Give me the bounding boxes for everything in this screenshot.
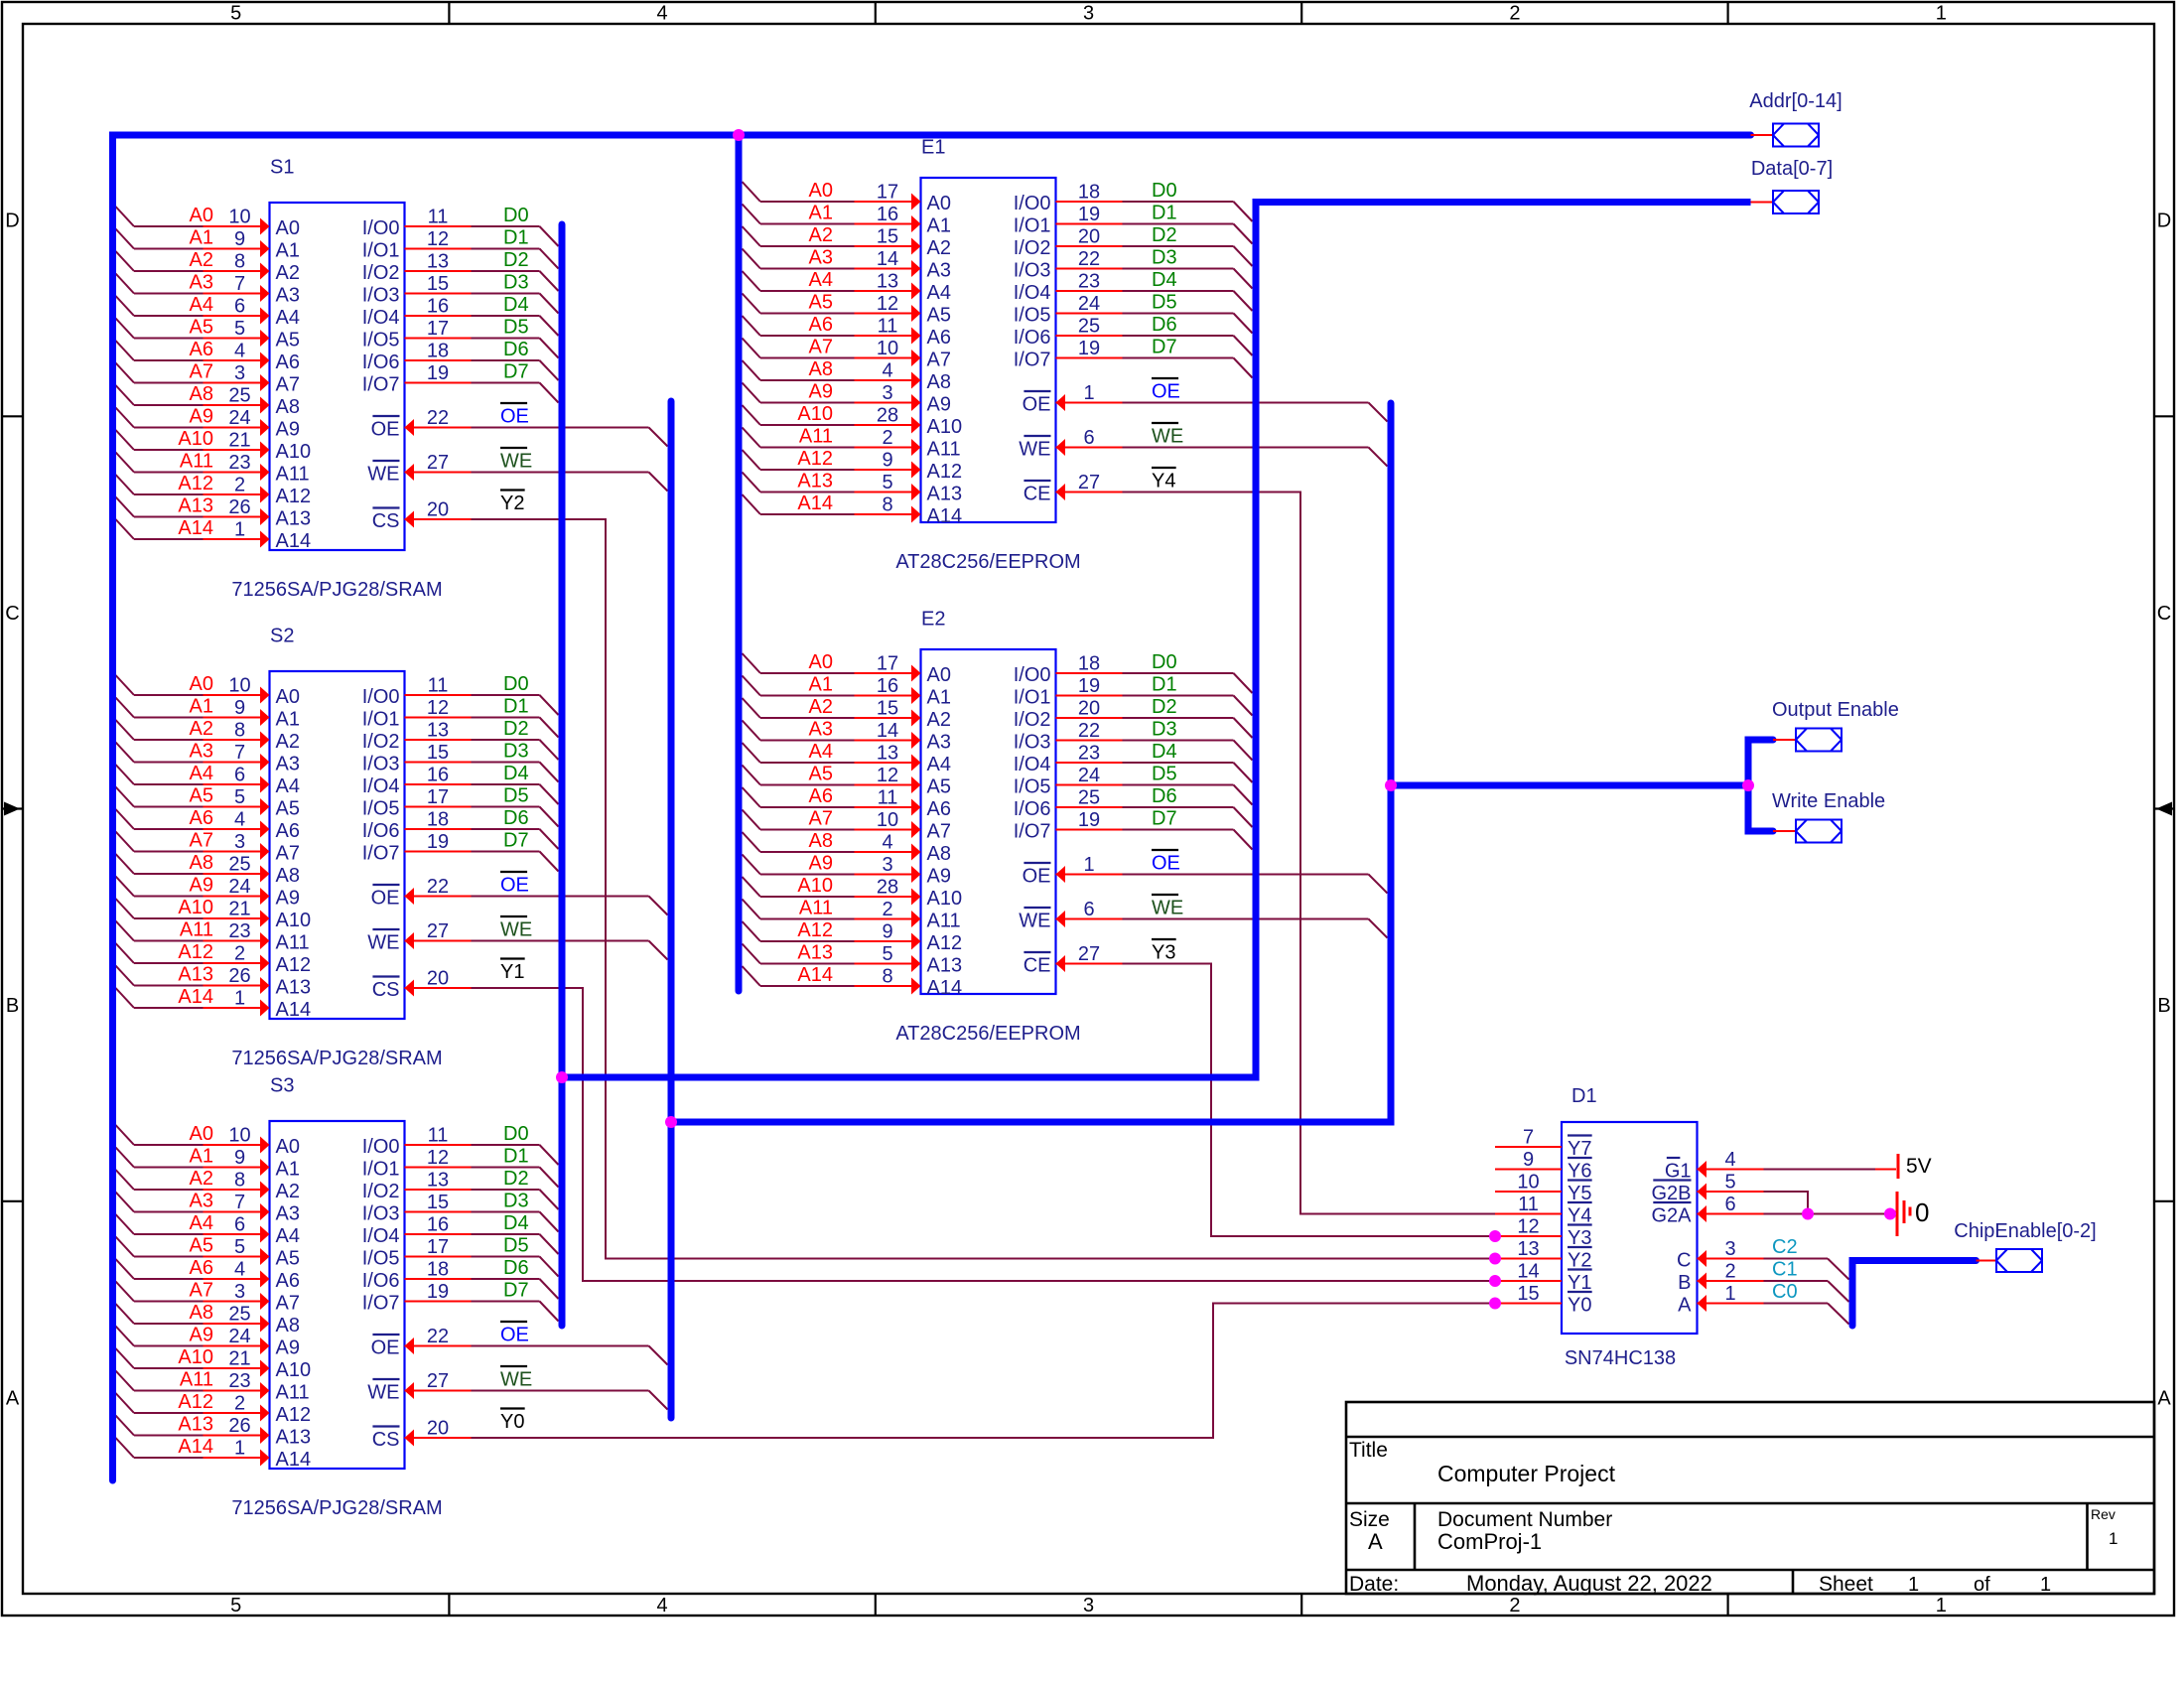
wire D4 from E1 I/O4 to data bus xyxy=(1056,291,1253,311)
svg-text:A1: A1 xyxy=(809,674,833,696)
wire D3 from E2 I/O3 to data bus xyxy=(1056,741,1253,761)
svg-text:24: 24 xyxy=(228,1326,250,1347)
svg-text:D2: D2 xyxy=(1152,224,1177,246)
svg-text:A3: A3 xyxy=(190,272,213,294)
E2 right pin numbers xyxy=(1078,653,1100,966)
svg-text:D6: D6 xyxy=(503,339,529,360)
svg-text:A10: A10 xyxy=(927,416,963,438)
svg-text:C0: C0 xyxy=(1772,1281,1798,1303)
svg-text:D7: D7 xyxy=(503,830,529,852)
svg-text:A14: A14 xyxy=(178,986,213,1008)
svg-text:A8: A8 xyxy=(927,843,951,865)
svg-text:2: 2 xyxy=(1724,1261,1735,1283)
wire A12 bus entry to S2 pin 2 xyxy=(116,943,270,972)
svg-text:2: 2 xyxy=(234,943,245,965)
svg-text:Y0: Y0 xyxy=(500,1411,524,1433)
wire A8 bus entry to S2 pin 25 xyxy=(116,854,270,883)
svg-text:19: 19 xyxy=(427,1281,449,1303)
svg-text:A12: A12 xyxy=(276,954,312,976)
wire A11 bus entry to S2 pin 23 xyxy=(116,921,270,950)
svg-text:5: 5 xyxy=(234,318,245,340)
IC S1 71256SA/PJG28 SRAM body xyxy=(231,157,442,602)
svg-text:16: 16 xyxy=(877,675,898,697)
svg-text:OE: OE xyxy=(1152,381,1180,403)
wire A13 bus entry to E1 pin 5 xyxy=(743,473,921,501)
svg-text:OE: OE xyxy=(500,1325,529,1346)
svg-text:Y5: Y5 xyxy=(1568,1183,1591,1204)
svg-text:A2: A2 xyxy=(190,249,213,271)
svg-text:26: 26 xyxy=(228,496,250,518)
svg-text:A1: A1 xyxy=(276,240,300,262)
svg-text:21: 21 xyxy=(228,1348,250,1370)
svg-text:WE: WE xyxy=(1152,426,1183,448)
svg-text:D0: D0 xyxy=(503,673,529,695)
svg-text:5: 5 xyxy=(230,3,241,25)
svg-text:A2: A2 xyxy=(276,1181,300,1202)
svg-text:Y1: Y1 xyxy=(500,961,524,983)
svg-text:20: 20 xyxy=(427,968,449,990)
svg-text:13: 13 xyxy=(427,720,449,742)
svg-text:28: 28 xyxy=(877,877,898,899)
svg-text:G2A: G2A xyxy=(1651,1205,1692,1227)
svg-text:22: 22 xyxy=(427,407,449,429)
svg-text:A7: A7 xyxy=(276,374,300,396)
ground symbol 0 xyxy=(1897,1192,1929,1236)
wire A12 bus entry to E1 pin 9 xyxy=(743,450,921,479)
svg-text:18: 18 xyxy=(427,809,449,831)
svg-text:16: 16 xyxy=(877,204,898,225)
svg-text:S2: S2 xyxy=(270,626,294,647)
svg-text:A14: A14 xyxy=(276,1449,312,1471)
svg-text:D3: D3 xyxy=(1152,247,1177,269)
svg-text:D7: D7 xyxy=(503,361,529,383)
wire D1 from E1 I/O1 to data bus xyxy=(1056,224,1253,244)
svg-text:A5: A5 xyxy=(927,776,951,798)
wire A9 bus entry to S3 pin 24 xyxy=(116,1327,270,1355)
svg-text:27: 27 xyxy=(427,920,449,942)
svg-text:9: 9 xyxy=(234,697,245,719)
IC E2 AT28C256 EEPROM body xyxy=(895,609,1080,1046)
svg-text:5V: 5V xyxy=(1906,1155,1932,1178)
wire WE from S2 to control bus xyxy=(405,932,668,960)
svg-text:I/O4: I/O4 xyxy=(362,775,400,797)
svg-text:15: 15 xyxy=(877,226,898,248)
svg-text:OE: OE xyxy=(500,406,529,428)
svg-text:A7: A7 xyxy=(927,350,951,371)
wire A5 bus entry to S3 pin 5 xyxy=(116,1237,270,1266)
svg-text:A13: A13 xyxy=(276,1427,312,1449)
svg-text:6: 6 xyxy=(234,296,245,318)
svg-text:WE: WE xyxy=(1152,898,1183,919)
svg-text:A0: A0 xyxy=(809,180,833,202)
svg-text:21: 21 xyxy=(228,430,250,452)
junction Y1 at D1 pin 14 xyxy=(1489,1275,1501,1287)
svg-text:Sheet: Sheet xyxy=(1819,1573,1873,1596)
wire A13 bus entry to S1 pin 26 xyxy=(116,497,270,526)
svg-text:A13: A13 xyxy=(797,471,833,492)
svg-text:OE: OE xyxy=(1023,866,1051,888)
junction control bus to ports xyxy=(1385,779,1397,791)
svg-text:A10: A10 xyxy=(178,897,213,918)
svg-text:25: 25 xyxy=(228,1304,250,1326)
svg-text:A8: A8 xyxy=(276,865,300,887)
bus run to Output/Write Enable ports xyxy=(1391,782,1748,789)
svg-text:23: 23 xyxy=(228,452,250,474)
wire D4 from S2 I/O4 to data bus xyxy=(405,784,559,804)
svg-text:I/O4: I/O4 xyxy=(1014,754,1051,775)
svg-text:1: 1 xyxy=(1083,854,1094,876)
wire D6 from E1 I/O6 to data bus xyxy=(1056,336,1253,355)
svg-text:E2: E2 xyxy=(921,609,945,631)
svg-text:2: 2 xyxy=(1509,3,1520,25)
svg-text:I/O2: I/O2 xyxy=(1014,237,1051,259)
svg-text:A12: A12 xyxy=(276,1404,312,1426)
wire A7 bus entry to S1 pin 3 xyxy=(116,363,270,392)
svg-text:I/O0: I/O0 xyxy=(362,1136,400,1158)
svg-text:A0: A0 xyxy=(276,1136,300,1158)
svg-text:I/O7: I/O7 xyxy=(1014,350,1051,371)
wire A12 bus entry to S3 pin 2 xyxy=(116,1393,270,1422)
E1 left pin numbers xyxy=(877,182,898,516)
svg-text:A9: A9 xyxy=(276,419,300,441)
svg-text:C1: C1 xyxy=(1772,1259,1798,1281)
svg-text:CS: CS xyxy=(372,1429,400,1451)
svg-text:17: 17 xyxy=(877,653,898,675)
svg-text:24: 24 xyxy=(1078,293,1100,315)
wire D4 from S1 I/O4 to data bus xyxy=(405,316,559,336)
wire A14 bus entry to E1 pin 8 xyxy=(743,494,921,523)
svg-text:13: 13 xyxy=(1517,1238,1539,1260)
svg-text:I/O7: I/O7 xyxy=(362,843,400,865)
svg-text:Y7: Y7 xyxy=(1568,1138,1591,1160)
svg-text:11: 11 xyxy=(878,316,898,338)
svg-text:A1: A1 xyxy=(809,203,833,224)
wire A3 bus entry to S2 pin 7 xyxy=(116,743,270,772)
svg-text:19: 19 xyxy=(427,362,449,384)
svg-text:D5: D5 xyxy=(503,317,529,339)
svg-text:6: 6 xyxy=(234,765,245,786)
svg-text:I/O5: I/O5 xyxy=(362,798,400,820)
wire D2 from S1 I/O2 to data bus xyxy=(405,271,559,291)
wire A14 bus entry to S3 pin 1 xyxy=(116,1438,270,1467)
wire A8 bus entry to S1 pin 25 xyxy=(116,385,270,414)
svg-text:5: 5 xyxy=(882,472,892,493)
svg-text:I/O4: I/O4 xyxy=(362,1225,400,1247)
svg-text:9: 9 xyxy=(234,1147,245,1169)
wire A9 bus entry to S2 pin 24 xyxy=(116,877,270,906)
wire D3 from S2 I/O3 to data bus xyxy=(405,763,559,782)
bus Data[0-7] horizontal + EEPROM vertical + top run to port xyxy=(562,203,1751,1078)
svg-text:A11: A11 xyxy=(276,932,310,954)
svg-text:A8: A8 xyxy=(927,371,951,393)
svg-text:WE: WE xyxy=(367,932,399,954)
svg-text:71256SA/PJG28/SRAM: 71256SA/PJG28/SRAM xyxy=(231,1497,442,1519)
svg-text:D2: D2 xyxy=(503,1168,529,1190)
svg-text:14: 14 xyxy=(1517,1261,1539,1283)
svg-text:19: 19 xyxy=(1078,338,1100,359)
svg-text:A9: A9 xyxy=(190,406,213,428)
wire Y3 from E2 CE pin 27 to decoder xyxy=(1056,955,1496,1236)
wire D4 from S3 I/O4 to data bus xyxy=(405,1234,559,1254)
svg-text:12: 12 xyxy=(427,228,449,250)
svg-text:14: 14 xyxy=(877,720,898,742)
svg-text:A10: A10 xyxy=(178,1346,213,1368)
svg-text:17: 17 xyxy=(427,1236,449,1258)
svg-text:I/O7: I/O7 xyxy=(362,1293,400,1315)
svg-text:A5: A5 xyxy=(190,317,213,339)
svg-text:A11: A11 xyxy=(927,911,961,932)
svg-text:A3: A3 xyxy=(809,719,833,741)
svg-text:A14: A14 xyxy=(276,530,312,552)
svg-text:A5: A5 xyxy=(190,1235,213,1257)
wire A7 bus entry to S2 pin 3 xyxy=(116,832,270,861)
svg-text:Y2: Y2 xyxy=(500,492,524,514)
svg-text:I/O1: I/O1 xyxy=(362,709,400,731)
svg-text:A2: A2 xyxy=(276,731,300,753)
wire C input from ChipEnable bus xyxy=(1698,1250,1849,1280)
svg-text:3: 3 xyxy=(1083,1595,1094,1617)
svg-text:19: 19 xyxy=(427,831,449,853)
svg-text:2: 2 xyxy=(234,1393,245,1415)
svg-text:14: 14 xyxy=(877,248,898,270)
svg-text:A0: A0 xyxy=(276,217,300,239)
svg-text:C2: C2 xyxy=(1772,1236,1798,1258)
svg-text:20: 20 xyxy=(1078,698,1100,720)
svg-text:7: 7 xyxy=(234,1192,245,1213)
svg-text:4: 4 xyxy=(234,1259,245,1281)
svg-text:Y6: Y6 xyxy=(1568,1161,1591,1183)
svg-text:A0: A0 xyxy=(190,1123,213,1145)
svg-text:WE: WE xyxy=(1019,439,1050,461)
wire A8 bus entry to E2 pin 4 xyxy=(743,832,921,861)
svg-text:4: 4 xyxy=(657,1595,668,1617)
wire A14 bus entry to E2 pin 8 xyxy=(743,966,921,995)
svg-text:16: 16 xyxy=(427,1214,449,1236)
bus OE/WE control vertical left xyxy=(668,401,675,1418)
svg-text:I/O0: I/O0 xyxy=(362,686,400,708)
off-page port Addr[0-14] xyxy=(1751,134,1774,136)
wire A0 bus entry to S3 pin 10 xyxy=(116,1125,270,1154)
svg-text:2: 2 xyxy=(1509,1595,1520,1617)
svg-text:D1: D1 xyxy=(503,1146,529,1168)
svg-text:D6: D6 xyxy=(503,1257,529,1279)
power symbol 5V xyxy=(1898,1154,1932,1179)
wire A5 bus entry to S1 pin 5 xyxy=(116,319,270,348)
svg-text:Date:: Date: xyxy=(1349,1573,1399,1596)
svg-text:9: 9 xyxy=(882,450,892,472)
svg-text:17: 17 xyxy=(427,318,449,340)
svg-text:A10: A10 xyxy=(178,428,213,450)
svg-text:I/O2: I/O2 xyxy=(1014,709,1051,731)
svg-text:4: 4 xyxy=(1724,1149,1735,1171)
wire OE from E2 to control bus xyxy=(1056,866,1388,894)
svg-text:A13: A13 xyxy=(178,1414,213,1436)
svg-text:A9: A9 xyxy=(190,1325,213,1346)
junction Y3 at D1 pin 12 xyxy=(1489,1230,1501,1242)
svg-text:23: 23 xyxy=(1078,743,1100,765)
wire Y1 from S2 CS pin 20 to decoder xyxy=(405,980,1496,1282)
svg-text:A4: A4 xyxy=(927,754,951,775)
wire A2 bus entry to S2 pin 8 xyxy=(116,720,270,749)
svg-text:28: 28 xyxy=(877,405,898,427)
svg-text:I/O3: I/O3 xyxy=(1014,732,1051,754)
svg-text:A13: A13 xyxy=(797,942,833,964)
svg-text:CE: CE xyxy=(1024,955,1051,977)
bus Data[0-7] SRAM vertical xyxy=(559,224,566,1326)
wire A1 bus entry to E2 pin 16 xyxy=(743,676,921,705)
wire A4 bus entry to E1 pin 13 xyxy=(743,271,921,300)
svg-text:11: 11 xyxy=(1518,1194,1539,1215)
wire D6 from S2 I/O6 to data bus xyxy=(405,829,559,849)
svg-text:12: 12 xyxy=(427,1147,449,1169)
svg-text:A5: A5 xyxy=(809,292,833,314)
D1 right pin numbers xyxy=(1724,1149,1735,1305)
E1 right pin numbers xyxy=(1078,182,1100,494)
svg-text:Computer Project: Computer Project xyxy=(1437,1461,1616,1486)
svg-text:I/O1: I/O1 xyxy=(1014,687,1051,709)
wire A4 bus entry to S3 pin 6 xyxy=(116,1214,270,1243)
svg-text:D: D xyxy=(2157,211,2171,232)
junction Addr bus split xyxy=(733,129,745,141)
svg-text:3: 3 xyxy=(882,854,892,876)
svg-text:I/O5: I/O5 xyxy=(1014,776,1051,798)
svg-text:D6: D6 xyxy=(1152,314,1177,336)
svg-text:I/O6: I/O6 xyxy=(362,352,400,373)
wire A14 bus entry to S1 pin 1 xyxy=(116,519,270,548)
wire D0 from S1 I/O0 to data bus xyxy=(405,226,559,246)
wire A6 bus entry to E2 pin 11 xyxy=(743,787,921,816)
IC E1 AT28C256 EEPROM body xyxy=(895,137,1080,574)
off-page port ChipEnable[0-2] xyxy=(1977,1260,1997,1262)
svg-text:A10: A10 xyxy=(276,1359,312,1381)
wire D6 from S3 I/O6 to data bus xyxy=(405,1279,559,1299)
svg-text:D5: D5 xyxy=(503,1235,529,1257)
svg-text:A0: A0 xyxy=(190,673,213,695)
wire G2A to ground xyxy=(1698,1205,1896,1222)
svg-text:OE: OE xyxy=(1152,853,1180,875)
svg-text:12: 12 xyxy=(1517,1216,1539,1238)
svg-text:23: 23 xyxy=(228,920,250,942)
junction control bus xyxy=(665,1116,677,1128)
svg-text:24: 24 xyxy=(228,407,250,429)
svg-text:A0: A0 xyxy=(276,686,300,708)
wire D2 from S2 I/O2 to data bus xyxy=(405,740,559,760)
wire WE from S3 to control bus xyxy=(405,1382,668,1410)
svg-text:22: 22 xyxy=(427,876,449,898)
svg-text:S3: S3 xyxy=(270,1075,294,1097)
svg-text:1: 1 xyxy=(1936,3,1947,25)
svg-text:D0: D0 xyxy=(1152,180,1177,202)
svg-text:15: 15 xyxy=(427,273,449,295)
off-page port Write Enable xyxy=(1773,830,1796,832)
svg-text:A2: A2 xyxy=(809,696,833,718)
svg-text:SN74HC138: SN74HC138 xyxy=(1565,1347,1676,1369)
svg-text:I/O3: I/O3 xyxy=(362,285,400,307)
wire D7 from S3 I/O7 to data bus xyxy=(405,1302,559,1322)
svg-text:A9: A9 xyxy=(809,853,833,875)
svg-text:2: 2 xyxy=(234,475,245,496)
wire Y4 from E1 CE pin 27 to decoder xyxy=(1056,484,1496,1214)
wire OE from S2 to control bus xyxy=(405,888,668,915)
wire A10 bus entry to S2 pin 21 xyxy=(116,899,270,927)
svg-text:G1: G1 xyxy=(1665,1161,1692,1183)
svg-text:A12: A12 xyxy=(276,486,312,507)
svg-text:15: 15 xyxy=(1517,1283,1539,1305)
svg-text:15: 15 xyxy=(877,698,898,720)
svg-text:D1: D1 xyxy=(1152,203,1177,224)
bus OE/WE control horizontal + right vertical xyxy=(671,403,1391,1122)
svg-text:3: 3 xyxy=(234,362,245,384)
svg-text:9: 9 xyxy=(234,228,245,250)
svg-text:A5: A5 xyxy=(190,785,213,807)
svg-text:7: 7 xyxy=(234,742,245,764)
svg-text:8: 8 xyxy=(234,720,245,742)
IC S2 71256SA/PJG28 SRAM body xyxy=(231,626,442,1070)
svg-text:D2: D2 xyxy=(503,249,529,271)
svg-text:A11: A11 xyxy=(276,464,310,486)
svg-text:A14: A14 xyxy=(927,977,963,999)
svg-text:A11: A11 xyxy=(180,451,213,473)
svg-text:ComProj-1: ComProj-1 xyxy=(1437,1529,1542,1554)
wire D5 from S1 I/O5 to data bus xyxy=(405,339,559,358)
svg-text:I/O3: I/O3 xyxy=(362,1203,400,1225)
svg-text:D1: D1 xyxy=(503,696,529,718)
svg-text:5: 5 xyxy=(234,786,245,808)
svg-text:19: 19 xyxy=(1078,204,1100,225)
wire A11 bus entry to S1 pin 23 xyxy=(116,453,270,482)
svg-text:11: 11 xyxy=(878,787,898,809)
svg-text:Monday, August 22, 2022: Monday, August 22, 2022 xyxy=(1466,1571,1712,1596)
svg-text:D0: D0 xyxy=(503,205,529,226)
svg-text:WE: WE xyxy=(367,1382,399,1404)
svg-text:Output Enable: Output Enable xyxy=(1772,699,1899,721)
svg-text:A6: A6 xyxy=(276,352,300,373)
svg-text:A1: A1 xyxy=(927,687,951,709)
svg-text:1: 1 xyxy=(1724,1283,1735,1305)
svg-text:22: 22 xyxy=(1078,248,1100,270)
svg-text:A3: A3 xyxy=(190,1191,213,1212)
svg-text:A9: A9 xyxy=(927,394,951,416)
svg-text:5: 5 xyxy=(230,1595,241,1617)
svg-text:1: 1 xyxy=(1936,1595,1947,1617)
svg-text:15: 15 xyxy=(427,742,449,764)
svg-text:A1: A1 xyxy=(927,215,951,237)
svg-text:A6: A6 xyxy=(190,339,213,360)
svg-text:D3: D3 xyxy=(1152,719,1177,741)
svg-text:22: 22 xyxy=(427,1326,449,1347)
S1 right pin numbers xyxy=(427,207,449,521)
svg-text:A13: A13 xyxy=(276,508,312,530)
D1 left pin numbers xyxy=(1517,1127,1539,1306)
svg-text:D7: D7 xyxy=(1152,808,1177,830)
svg-text:A14: A14 xyxy=(178,517,213,539)
D1 output pin stubs Y7 Y6 Y5 (unconnected) xyxy=(1495,1147,1562,1192)
svg-text:9: 9 xyxy=(882,921,892,943)
svg-text:16: 16 xyxy=(427,296,449,318)
svg-text:11: 11 xyxy=(428,675,449,697)
svg-text:D6: D6 xyxy=(503,807,529,829)
svg-text:21: 21 xyxy=(228,899,250,920)
svg-text:A7: A7 xyxy=(276,843,300,865)
svg-text:3: 3 xyxy=(882,382,892,404)
wire A13 bus entry to S3 pin 26 xyxy=(116,1416,270,1445)
svg-text:25: 25 xyxy=(1078,316,1100,338)
svg-text:25: 25 xyxy=(228,385,250,407)
wire D1 from S2 I/O1 to data bus xyxy=(405,718,559,738)
svg-text:18: 18 xyxy=(427,341,449,362)
svg-text:A12: A12 xyxy=(797,919,833,941)
svg-text:A4: A4 xyxy=(927,282,951,304)
